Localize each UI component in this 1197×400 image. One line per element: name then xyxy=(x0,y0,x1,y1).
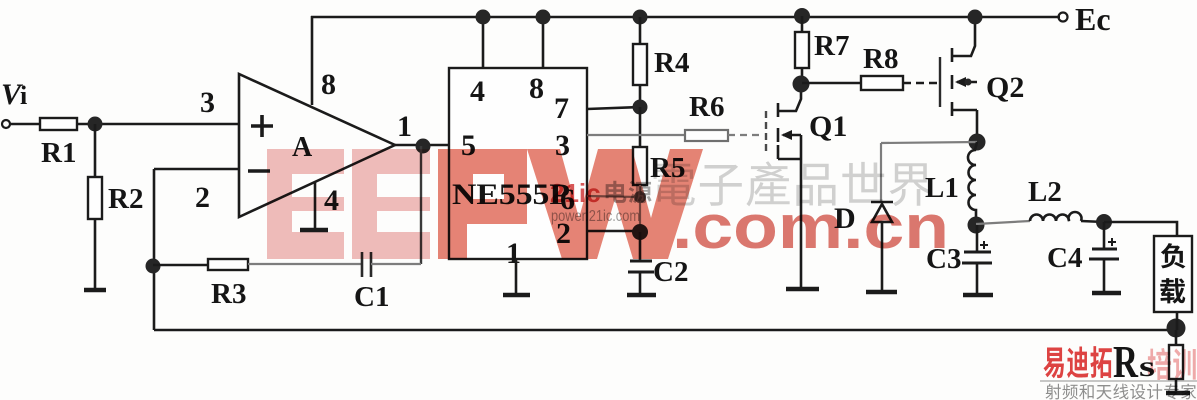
diode D xyxy=(871,202,893,290)
wire opamp pin4 down xyxy=(314,182,317,228)
load box 负载 xyxy=(1154,236,1192,312)
wire pin6 xyxy=(587,196,640,197)
wire L1 node to L2 xyxy=(976,221,1030,224)
wire opamp output to NE555 pin5 xyxy=(393,144,449,147)
svg-text:R2: R2 xyxy=(108,183,143,215)
svg-text:Q1: Q1 xyxy=(809,110,847,143)
wire pin7 xyxy=(587,107,640,109)
wire pin2 down to feedback node xyxy=(153,169,156,330)
wire R6 to Q1 gate dashed xyxy=(728,134,764,136)
svg-text:C4: C4 xyxy=(1047,242,1082,274)
svg-text:R1: R1 xyxy=(41,137,76,169)
junction Q1 drain R8 node xyxy=(793,76,810,93)
capacitor C4 xyxy=(1089,222,1119,291)
inductor L1 xyxy=(968,142,977,225)
wire Q2 source to diode D xyxy=(881,142,977,143)
wire 555 pin3 output xyxy=(587,134,685,136)
junction output node xyxy=(416,139,431,154)
svg-text:i: i xyxy=(20,81,27,110)
wire opamp pin2 xyxy=(154,168,239,171)
wire feedback node to R3 xyxy=(153,264,208,267)
svg-text:1: 1 xyxy=(397,110,412,143)
svg-text:Q2: Q2 xyxy=(986,71,1024,104)
wire C2 to ground xyxy=(639,272,642,293)
junction feedback node xyxy=(146,259,161,274)
svg-text:R7: R7 xyxy=(814,30,849,62)
wire top rail xyxy=(311,16,1060,19)
svg-text:R8: R8 xyxy=(863,43,898,75)
junction C4 node xyxy=(1096,214,1112,230)
junction Q2 source node xyxy=(969,134,986,151)
junction load bottom rail xyxy=(1167,319,1186,338)
resistor R4 xyxy=(633,44,647,85)
svg-text:L2: L2 xyxy=(1028,176,1062,208)
wire junction to R2 xyxy=(94,124,97,177)
junction pin6 node xyxy=(634,191,646,203)
wire Vi to R1 xyxy=(10,123,40,126)
wire pin1 to ground xyxy=(515,259,518,293)
wire L2 to C4 node xyxy=(1081,221,1104,222)
ground opamp pin4 xyxy=(300,228,328,233)
watermark dianyuan grey text xyxy=(606,181,627,203)
wire pin7 node to R5 xyxy=(639,107,642,147)
ground Q1 source xyxy=(786,287,819,292)
svg-text:R3: R3 xyxy=(211,278,246,310)
junction pin8 rail xyxy=(536,10,551,25)
opamp minus input mark xyxy=(248,169,270,173)
wire R4 to pin7 node xyxy=(639,85,642,107)
junction pin7 node xyxy=(633,100,648,115)
capacitor C1 xyxy=(362,252,371,277)
wire pin4 to rail xyxy=(482,17,485,68)
svg-text:R: R xyxy=(1113,336,1139,387)
svg-text:Ec: Ec xyxy=(1075,1,1111,37)
wire rail to R7 xyxy=(801,16,804,32)
wire bottom rail xyxy=(154,329,1176,332)
svg-text:.com.cn: .com.cn xyxy=(672,193,949,262)
wire R7 to Q1 drain node xyxy=(801,68,804,84)
resistor R3 xyxy=(208,259,248,270)
svg-text:4: 4 xyxy=(470,75,485,108)
wire output node down to C1 feedback xyxy=(420,146,422,264)
wire load to rail xyxy=(1176,312,1179,330)
svg-text:1: 1 xyxy=(506,237,521,270)
resistor R8 xyxy=(861,76,903,90)
watermark grey chinese characters xyxy=(654,164,695,206)
svg-text:R6: R6 xyxy=(689,91,724,123)
junction pin4 rail xyxy=(476,10,491,25)
wire R3 to C1 xyxy=(248,263,362,265)
ground Rs xyxy=(1166,391,1190,396)
ground C3 xyxy=(963,293,993,298)
wire C4 node to load xyxy=(1104,222,1177,237)
wire pin2 of 555 xyxy=(587,230,640,233)
svg-text:8: 8 xyxy=(321,68,336,101)
wire R5 to pin6 node xyxy=(639,185,641,232)
watermark yiditop red xyxy=(1040,346,1197,399)
watermark 21ic red text xyxy=(550,161,949,262)
ground C2 xyxy=(627,293,656,298)
junction pin2/C2 node xyxy=(632,224,648,240)
resistor R6 xyxy=(685,130,728,141)
ground diode D xyxy=(866,290,897,295)
svg-text:R4: R4 xyxy=(654,47,689,79)
ground pin1 xyxy=(503,293,530,298)
svg-text:C1: C1 xyxy=(354,281,389,313)
opamp plus input mark xyxy=(251,115,273,137)
watermark EEPW logo xyxy=(267,149,703,259)
junction node R1/R2 xyxy=(88,117,103,132)
transistor Q2 MOSFET xyxy=(940,17,977,142)
junction L1 C3 node xyxy=(968,217,985,234)
svg-text:2: 2 xyxy=(195,181,210,214)
op-amp U1 triangle xyxy=(239,74,395,217)
wire rail to R4 xyxy=(639,17,642,44)
resistor R1 xyxy=(40,118,77,130)
junction R4 top rail xyxy=(633,10,648,25)
inductor L2 xyxy=(1030,212,1082,221)
resistor R5 xyxy=(633,147,647,185)
wire R8 to Q2 gate dashed xyxy=(903,82,938,85)
wire down to diode D xyxy=(880,143,882,202)
wire R2 to ground xyxy=(94,219,97,288)
node Vi input terminal xyxy=(2,120,10,128)
capacitor C3 xyxy=(962,225,992,293)
svg-text:7: 7 xyxy=(554,92,569,125)
IC U2 NE555P box xyxy=(449,68,587,259)
transistor Q1 MOSFET xyxy=(766,88,801,287)
wire pin8 to rail xyxy=(542,17,545,68)
ground under R2 xyxy=(84,288,106,293)
wire R1 to opamp pin3 xyxy=(77,123,239,126)
wire opamp pin8 to top rail xyxy=(311,16,314,105)
svg-text:power.21ic.com: power.21ic.com xyxy=(551,208,640,225)
wire C1 to output node xyxy=(371,263,421,265)
resistor Rs xyxy=(1169,330,1183,392)
capacitor C2 xyxy=(628,261,654,272)
wire node to R8 xyxy=(802,82,861,85)
svg-text:8: 8 xyxy=(529,72,544,105)
resistor R7 xyxy=(795,32,809,68)
resistor R2 xyxy=(88,177,102,219)
watermark RF antenna grey text xyxy=(1046,384,1061,400)
junction Q2 drain rail xyxy=(968,10,983,25)
junction R7 top rail xyxy=(794,8,810,24)
svg-text:3: 3 xyxy=(200,86,215,119)
node Ec terminal xyxy=(1059,13,1068,22)
wire node to C2 xyxy=(639,232,642,261)
svg-text:21ic: 21ic xyxy=(550,178,601,208)
ground C4 xyxy=(1092,291,1121,296)
